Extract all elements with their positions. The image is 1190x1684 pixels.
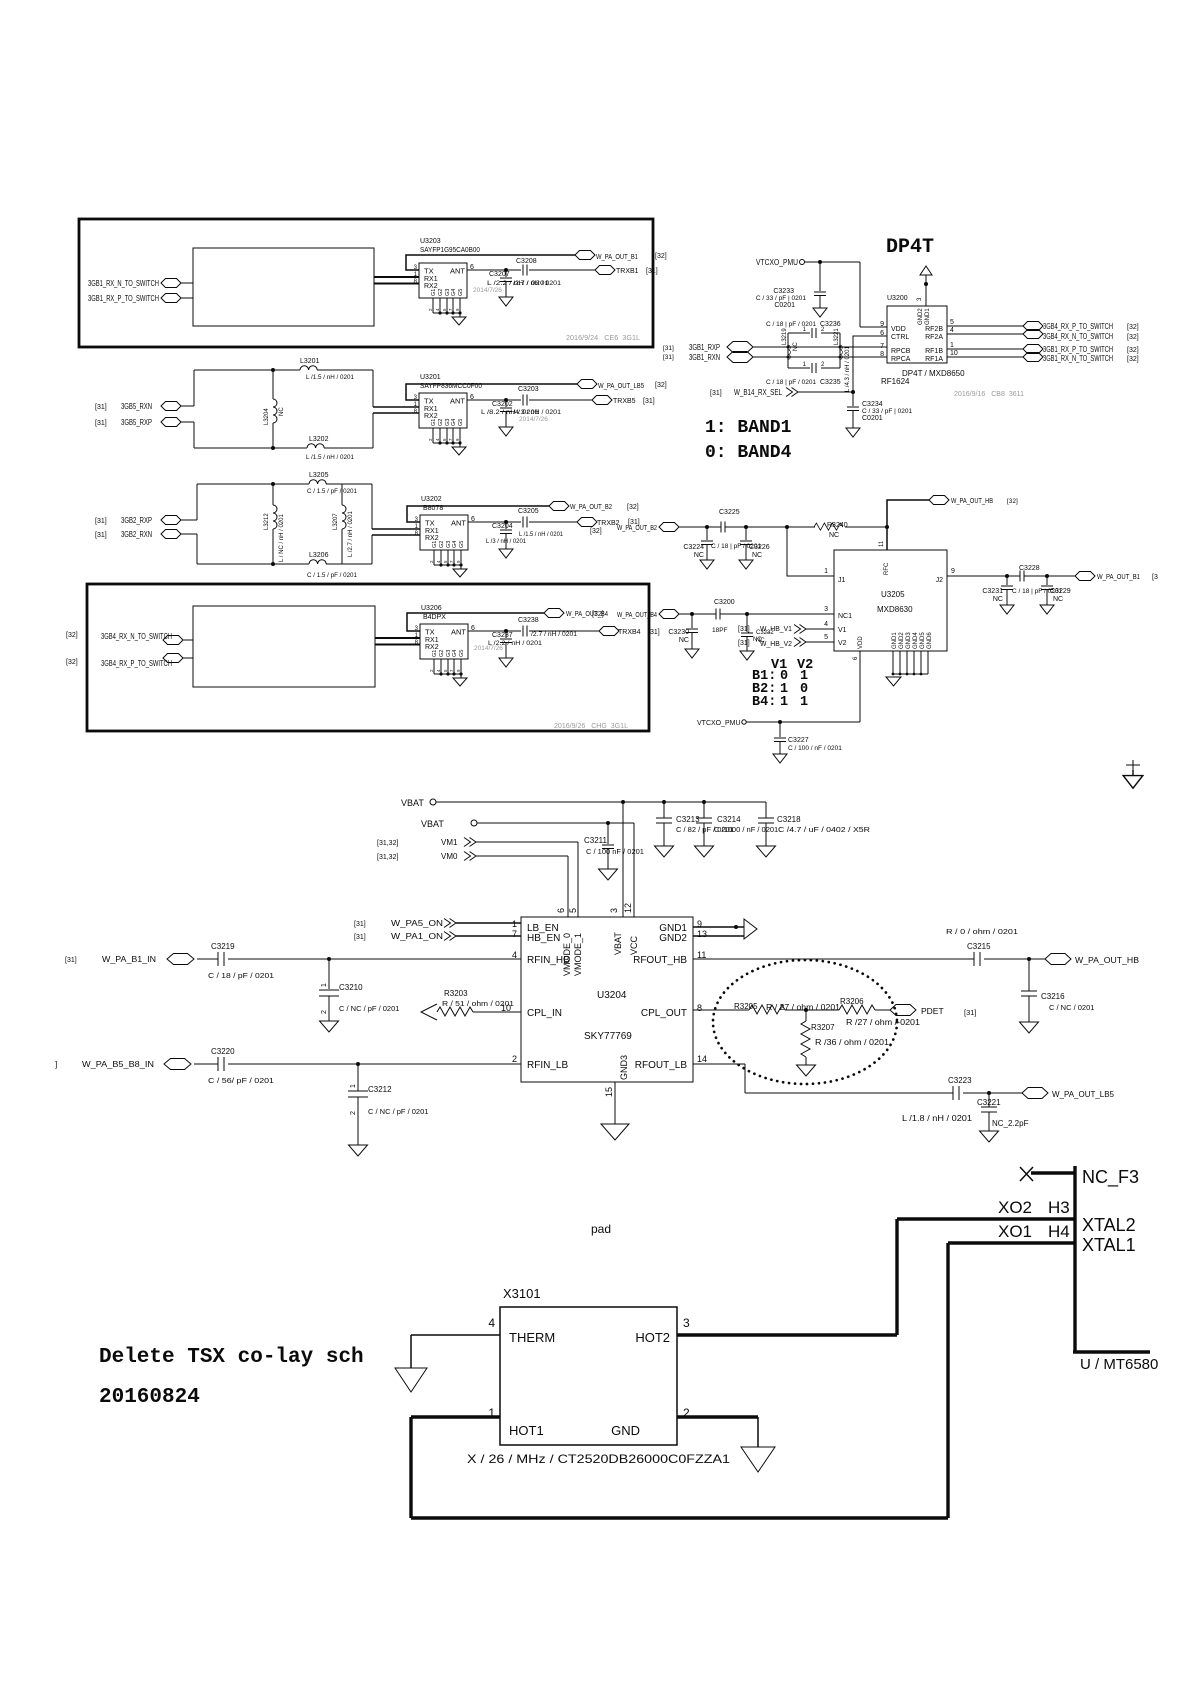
svg-text:/4.3 / nH / 0201: /4.3 / nH / 0201	[513, 409, 561, 416]
svg-text:[32]: [32]	[1007, 498, 1018, 505]
svg-text:C3216: C3216	[1041, 992, 1065, 1001]
MT6580 block edge	[1073, 1166, 1150, 1352]
svg-text:W_PA_OUT_LB5: W_PA_OUT_LB5	[1052, 1089, 1114, 1099]
capacitor C3214	[703, 802, 705, 818]
node	[1005, 574, 1009, 578]
svg-text:3GB4_RX_P_TO_SWITCH: 3GB4_RX_P_TO_SWITCH	[1043, 322, 1113, 331]
svg-text:3GB1_RXP: 3GB1_RXP	[689, 343, 720, 352]
svg-text:3: 3	[683, 1316, 690, 1330]
wire HOT2 to XTAL2	[677, 1333, 897, 1336]
node	[1027, 957, 1031, 961]
svg-text:5: 5	[824, 634, 828, 641]
svg-text:2016/9/26 CHG 3G1L: 2016/9/26 CHG 3G1L	[554, 723, 628, 730]
svg-text:6: 6	[556, 908, 566, 913]
wire	[181, 519, 197, 521]
svg-text:B4DPX: B4DPX	[423, 614, 446, 621]
svg-text:[32]: [32]	[592, 611, 604, 618]
svg-text:X / 26 / MHz / CT2520DB26000C0: X / 26 / MHz / CT2520DB26000C0FZZA1	[467, 1452, 730, 1466]
node	[504, 629, 508, 633]
wire	[194, 1063, 521, 1065]
svg-text:[32]: [32]	[655, 382, 667, 389]
svg-text:RF1B: RF1B	[925, 348, 943, 355]
svg-text:GND2: GND2	[918, 308, 924, 325]
ground	[349, 1142, 368, 1156]
svg-text:VDD: VDD	[891, 326, 906, 333]
svg-text:C3230: C3230	[668, 629, 689, 636]
svg-text:1: 1	[321, 983, 328, 987]
capacitor C3212	[357, 1064, 359, 1091]
svg-text:C0201: C0201	[774, 302, 795, 309]
svg-text:[32]: [32]	[627, 504, 639, 511]
svg-text:VDD: VDD	[858, 636, 864, 649]
svg-text:[31]: [31]	[964, 1008, 977, 1017]
svg-text:MXD8630: MXD8630	[877, 605, 913, 614]
svg-text:NC1: NC1	[838, 613, 852, 620]
svg-text:R3240: R3240	[827, 522, 848, 529]
svg-text:[32]: [32]	[66, 659, 78, 666]
node	[744, 525, 748, 529]
svg-text:H3: H3	[1048, 1198, 1070, 1217]
svg-text:11: 11	[879, 540, 885, 547]
svg-text:10: 10	[950, 350, 958, 357]
svg-text:C3207: C3207	[489, 271, 510, 278]
svg-text:2016/9/16 CB8 3611: 2016/9/16 CB8 3611	[954, 391, 1024, 398]
wire ANT to TRXB4	[468, 630, 599, 632]
svg-text:Delete TSX co-lay sch: Delete TSX co-lay sch	[99, 1346, 364, 1369]
svg-text:RFOUT_LB: RFOUT_LB	[635, 1060, 688, 1071]
wire HOT1 loop to XTAL1	[411, 1417, 948, 1518]
wire RFOUT_HB	[693, 958, 1045, 960]
svg-text:GND2: GND2	[899, 632, 905, 649]
wire VBAT rail	[436, 802, 766, 818]
svg-text:4: 4	[950, 327, 954, 334]
GND1/GND2 wires	[693, 927, 744, 936]
ground	[599, 866, 618, 880]
svg-text:SAYFP1G95CA0B00: SAYFP1G95CA0B00	[420, 247, 480, 254]
capacitor C3225	[721, 522, 725, 533]
wire loop right rail	[371, 484, 373, 564]
svg-text:L /1.5 / nH / 0201: L /1.5 / nH / 0201	[519, 531, 563, 538]
wire	[181, 421, 194, 423]
svg-text:1: BAND1: 1: BAND1	[705, 418, 792, 438]
svg-text:W_PA_OUT_B1: W_PA_OUT_B1	[1097, 574, 1140, 581]
svg-text:W_PA_OUT_LB5: W_PA_OUT_LB5	[598, 383, 644, 390]
svg-text:C / NC / pF / 0201: C / NC / pF / 0201	[339, 1004, 399, 1013]
svg-text:[31]: [31]	[663, 354, 674, 361]
capacitor C3226 NC	[745, 527, 747, 540]
svg-text:1: 1	[800, 695, 808, 710]
wire TX to W_PA_OUT_LB5	[406, 384, 577, 400]
capacitor C3230 NC	[691, 614, 693, 628]
wire loop left rail	[196, 484, 198, 564]
svg-text:18PF: 18PF	[712, 627, 728, 634]
svg-text:[32]: [32]	[66, 632, 78, 639]
svg-text:9: 9	[880, 321, 884, 328]
svg-text:[32]: [32]	[1127, 356, 1139, 363]
svg-text:[31,32]: [31,32]	[377, 854, 398, 861]
svg-text:W_PA_OUT_B2: W_PA_OUT_B2	[570, 504, 612, 511]
svg-text:VTCXO_PMU: VTCXO_PMU	[697, 720, 741, 727]
svg-text:[32]: [32]	[590, 528, 602, 535]
node	[804, 1008, 808, 1012]
svg-text:2016/9/24 CE6 3G1L: 2016/9/24 CE6 3G1L	[566, 335, 640, 342]
dotted ellipse	[713, 960, 897, 1084]
svg-text:2014/7/26: 2014/7/26	[519, 416, 548, 423]
svg-text:C3202: C3202	[492, 401, 513, 408]
svg-text:R /36 / ohm / 0201: R /36 / ohm / 0201	[815, 1038, 890, 1047]
svg-text:[32]: [32]	[1127, 347, 1139, 354]
svg-text:W_PA_B1_IN: W_PA_B1_IN	[102, 955, 156, 964]
svg-text:RFIN_LB: RFIN_LB	[527, 1060, 568, 1071]
node	[1045, 574, 1049, 578]
svg-text:C / 1.5 / pF / 0201: C / 1.5 / pF / 0201	[307, 572, 357, 579]
svg-text:C3235: C3235	[820, 379, 841, 386]
svg-text:R3207: R3207	[811, 1023, 835, 1032]
wire loop left rail	[193, 370, 195, 448]
svg-text:R / 51 / ohm / 0201: R / 51 / ohm / 0201	[442, 999, 514, 1008]
inductor L3202	[194, 447, 373, 449]
resistor R3203	[421, 1004, 437, 1020]
wire RXP to RFCB	[753, 346, 887, 348]
wire VBAT2 to VCC	[477, 823, 634, 917]
svg-text:NC: NC	[793, 342, 799, 351]
node	[690, 612, 694, 616]
svg-text:R3203: R3203	[444, 989, 468, 998]
inductor L3206	[197, 563, 372, 565]
svg-text:RF1624: RF1624	[881, 377, 910, 386]
wire B2 chain	[679, 526, 887, 528]
svg-text:HOT2: HOT2	[635, 1330, 670, 1345]
matching rails	[788, 333, 840, 368]
svg-text:1: 1	[824, 568, 828, 575]
capacitor C3237	[505, 631, 507, 638]
svg-text:8: 8	[697, 1003, 702, 1013]
svg-text:3GB1_RXN: 3GB1_RXN	[689, 353, 720, 362]
ground	[320, 1018, 339, 1032]
svg-text:GND3: GND3	[906, 632, 912, 649]
svg-text:TRXB4: TRXB4	[618, 629, 641, 636]
node	[504, 520, 508, 524]
resistor R3205	[749, 1005, 785, 1014]
wire	[197, 958, 521, 960]
port W_PA_OUT_LB5	[1022, 1088, 1048, 1099]
svg-text:/2.7 / nH / 0201: /2.7 / nH / 0201	[531, 631, 577, 638]
port 3GB4_RX_P_TO_SWITCH	[1023, 322, 1043, 331]
wire ANT to TRXB5	[467, 399, 592, 401]
svg-text:W_B14_RX_SEL: W_B14_RX_SEL	[734, 388, 782, 397]
svg-text:9: 9	[951, 568, 955, 575]
svg-text:L3219: L3219	[782, 328, 788, 345]
port W_PA_OUT_B2	[549, 502, 569, 511]
filter U3206	[415, 624, 475, 686]
svg-text:V2: V2	[838, 640, 847, 647]
svg-text:R3205: R3205	[734, 1002, 758, 1011]
svg-text:3: 3	[609, 908, 619, 913]
capacitor C3227	[779, 722, 781, 737]
svg-text:1: 1	[350, 1084, 357, 1088]
svg-text:[3: [3	[1152, 574, 1158, 581]
wire	[183, 639, 193, 641]
svg-text:U / MT6580: U / MT6580	[1080, 1356, 1158, 1373]
svg-text:VM0: VM0	[441, 852, 458, 861]
GND pin stubs	[893, 651, 928, 674]
capacitor C3213	[663, 802, 665, 818]
svg-text:C / 33 / pF | 0201: C / 33 / pF | 0201	[756, 295, 806, 302]
port TRXB2	[577, 518, 597, 527]
svg-text:X3101: X3101	[503, 1286, 541, 1301]
svg-text:C0201: C0201	[862, 415, 883, 422]
svg-text:VTCXO_PMU: VTCXO_PMU	[756, 258, 798, 267]
ground	[1000, 601, 1014, 614]
svg-text:C3210: C3210	[339, 983, 363, 992]
svg-text:3GB4_RX_N_TO_SWITCH: 3GB4_RX_N_TO_SWITCH	[101, 632, 172, 641]
svg-text:C3215: C3215	[967, 942, 991, 951]
svg-text:VM1: VM1	[441, 838, 458, 847]
svg-text:NC: NC	[1053, 596, 1063, 603]
svg-text:14: 14	[697, 1054, 707, 1064]
ic U3200	[887, 306, 947, 363]
port W_PA_OUT_B4	[544, 609, 564, 618]
svg-text:GND5: GND5	[920, 632, 926, 649]
ground	[1040, 601, 1054, 614]
svg-text:W_HB_V1: W_HB_V1	[760, 626, 792, 633]
svg-text:U3200: U3200	[887, 295, 908, 302]
capacitor C3202	[505, 400, 507, 407]
port 3GB1_RX_P_TO_SWITCH	[1023, 345, 1043, 354]
wire TX to W_PA_OUT_B2	[407, 506, 549, 522]
svg-text:W_PA_OUT_HB: W_PA_OUT_HB	[951, 498, 993, 505]
svg-text:NC: NC	[694, 552, 704, 559]
svg-text:3GB2_RXP: 3GB2_RXP	[121, 516, 152, 525]
svg-text:2: 2	[512, 1054, 517, 1064]
svg-text:pad: pad	[591, 1222, 611, 1236]
svg-text:NC: NC	[829, 532, 839, 539]
capacitor C3229 NC	[1046, 576, 1048, 585]
svg-text:C3214: C3214	[717, 815, 741, 824]
svg-text:XTAL1: XTAL1	[1082, 1235, 1136, 1255]
svg-text:[31]: [31]	[710, 390, 722, 397]
svg-text:C3205: C3205	[518, 508, 539, 515]
svg-text:C / NC / 0201: C / NC / 0201	[1049, 1003, 1094, 1012]
svg-text:2: 2	[321, 1010, 328, 1014]
svg-text:W_PA_OUT_B4: W_PA_OUT_B4	[617, 612, 657, 619]
svg-text:W_PA5_ON: W_PA5_ON	[391, 919, 443, 928]
svg-text:RPCA: RPCA	[891, 356, 911, 363]
capacitor C3236	[812, 328, 816, 338]
svg-text:C3234: C3234	[862, 401, 883, 408]
wire	[181, 282, 193, 284]
capacitor C3215	[974, 952, 980, 966]
svg-text:RF2B: RF2B	[925, 326, 943, 333]
resistor R3240 NC	[814, 523, 843, 530]
ground	[741, 1447, 775, 1472]
pin15 ground	[614, 1082, 616, 1124]
svg-text:U3206: U3206	[421, 605, 442, 612]
svg-text:CPL_OUT: CPL_OUT	[641, 1008, 687, 1019]
svg-text:L3207: L3207	[333, 513, 339, 530]
svg-text:L3212: L3212	[264, 513, 270, 530]
lone ground	[1126, 760, 1140, 772]
inductor L3201	[194, 369, 373, 371]
svg-text:2014/7/26: 2014/7/26	[473, 287, 502, 294]
svg-text:NC_F3: NC_F3	[1082, 1167, 1139, 1188]
capacitor C3218	[758, 818, 774, 823]
ground	[886, 677, 901, 686]
svg-text:1: 1	[950, 342, 954, 349]
wires RF outputs	[947, 326, 1023, 357]
ground	[773, 750, 787, 763]
filter U3203	[414, 263, 474, 325]
svg-text:GND3: GND3	[619, 1055, 629, 1080]
node	[987, 1091, 991, 1095]
svg-text:U3203: U3203	[420, 238, 441, 245]
svg-text:[32]: [32]	[655, 253, 667, 260]
wire THERM to ground	[411, 1335, 500, 1368]
svg-text:L3205: L3205	[309, 472, 329, 479]
ground	[695, 843, 714, 857]
wire to pin 3	[622, 802, 624, 917]
svg-text:W_PA_OUT_B1: W_PA_OUT_B1	[596, 254, 638, 261]
svg-text:[31]: [31]	[646, 268, 658, 275]
svg-text:CPL_IN: CPL_IN	[527, 1008, 562, 1019]
wire TX to W_PA_OUT_B1	[406, 255, 575, 270]
svg-text:R / 27 / ohm / 0201: R / 27 / ohm / 0201	[766, 1003, 841, 1012]
ground	[757, 843, 776, 857]
svg-text:C3212: C3212	[368, 1085, 392, 1094]
svg-text:HB_EN: HB_EN	[527, 933, 560, 944]
ground arrow right	[744, 919, 757, 939]
svg-text:C3227: C3227	[788, 737, 809, 744]
svg-text:[31]: [31]	[95, 518, 107, 525]
svg-text:13: 13	[697, 929, 707, 939]
wire ANT to TRXB1	[467, 269, 595, 271]
power pin 3	[925, 279, 927, 306]
svg-text:L3201: L3201	[300, 358, 320, 365]
svg-text:3GB2_RXN: 3GB2_RXN	[121, 530, 152, 539]
ground	[685, 645, 699, 658]
svg-text:C3200: C3200	[714, 599, 735, 606]
svg-text:C3218: C3218	[777, 815, 801, 824]
capacitor C3210	[328, 959, 330, 989]
node branch to J1	[785, 525, 789, 529]
wire	[183, 657, 193, 659]
svg-text:U3204: U3204	[597, 990, 627, 1001]
svg-text:W_PA_OUT_B2: W_PA_OUT_B2	[617, 525, 657, 532]
capacitor C3233	[819, 262, 821, 291]
ground	[499, 423, 513, 436]
port TRXB5	[592, 396, 612, 405]
ground	[499, 293, 513, 306]
svg-text:W_PA1_ON: W_PA1_ON	[391, 932, 443, 941]
svg-text:C3228: C3228	[1019, 565, 1040, 572]
ground	[395, 1368, 427, 1392]
svg-text:[31]: [31]	[643, 398, 655, 405]
svg-text:XTAL2: XTAL2	[1082, 1215, 1136, 1235]
svg-text:VCC: VCC	[629, 935, 639, 955]
NC_F3 no-connect X	[1020, 1167, 1033, 1181]
wire TX to W_PA_OUT_B4	[407, 613, 544, 631]
wire RX1/RX2 to module	[374, 277, 419, 284]
svg-text:L3221: L3221	[834, 328, 840, 345]
svg-text:RFOUT_HB: RFOUT_HB	[633, 955, 687, 966]
inner block (empty module)	[193, 606, 375, 687]
svg-text:L /3 / nH / 0201: L /3 / nH / 0201	[486, 538, 526, 545]
ground	[739, 556, 753, 569]
svg-text:VMODE_1: VMODE_1	[573, 933, 583, 976]
capacitor C3232 NC	[745, 612, 749, 616]
svg-text:RF1A: RF1A	[925, 356, 943, 363]
filter U3201	[414, 393, 474, 455]
svg-text:[31,32]: [31,32]	[377, 840, 398, 847]
capacitor C3231 NC	[1006, 576, 1008, 585]
node	[504, 268, 508, 272]
svg-text:C / 18 / pF / 0201: C / 18 / pF / 0201	[208, 971, 274, 980]
capacitor C3223	[953, 1086, 959, 1100]
port 3GB1_RX_N_TO_SWITCH	[1023, 353, 1043, 362]
svg-text:C3221: C3221	[977, 1098, 1001, 1107]
ground	[499, 654, 513, 667]
ground	[846, 424, 860, 437]
svg-text:[31]: [31]	[648, 629, 660, 636]
svg-text:C / 1.5 / pF / 0201: C / 1.5 / pF / 0201	[307, 488, 357, 495]
svg-text:U3201: U3201	[420, 374, 441, 381]
svg-text:[32]: [32]	[1127, 324, 1139, 331]
svg-text:[31]: [31]	[738, 626, 750, 633]
capacitor C3219	[218, 952, 224, 966]
svg-text:20160824: 20160824	[99, 1386, 200, 1409]
svg-text:L /2.7 / nH / 0201: L /2.7 / nH / 0201	[348, 511, 354, 557]
capacitor C3204	[505, 522, 507, 529]
node	[504, 398, 508, 402]
svg-text:C3237: C3237	[492, 632, 513, 639]
wires to U3201	[373, 407, 419, 413]
svg-text:[31]: [31]	[95, 420, 107, 427]
wire J2 output	[947, 575, 1075, 577]
node	[705, 525, 709, 529]
svg-text:RFC: RFC	[884, 562, 890, 575]
power up symbol	[920, 266, 932, 279]
svg-text:PDET: PDET	[921, 1006, 944, 1016]
capacitor C3238	[523, 626, 527, 637]
svg-text:W_PA_OUT_HB: W_PA_OUT_HB	[1075, 955, 1139, 965]
svg-text:GND1: GND1	[892, 632, 898, 649]
wire	[1031, 1171, 1075, 1174]
inner block (empty module)	[193, 248, 374, 326]
inductor L3207 vertical	[341, 484, 343, 564]
sheet box B4	[87, 584, 649, 731]
capacitor C3200	[716, 609, 720, 620]
inductor L3204 NC vertical	[272, 370, 274, 448]
port 3GB4_RX_N_TO_SWITCH	[1023, 330, 1043, 339]
sheet box B1	[79, 219, 653, 347]
wire	[181, 533, 197, 535]
capacitor C3216	[1028, 959, 1030, 991]
svg-text:C3231: C3231	[982, 588, 1003, 595]
svg-text:C / 56/ pF / 0201: C / 56/ pF / 0201	[208, 1076, 274, 1085]
svg-text:1: 1	[780, 695, 788, 710]
wire CTRL to W_B14_RX_SEL	[853, 336, 887, 406]
wire	[181, 405, 194, 407]
svg-text:C3211: C3211	[584, 836, 608, 845]
wire to W_PA_OUT_HB and pin 11	[887, 500, 929, 550]
port W_PA_OUT_HB	[1045, 954, 1071, 965]
svg-text:L3206: L3206	[309, 552, 329, 559]
svg-text:3GB4_RX_P_TO_SWITCH: 3GB4_RX_P_TO_SWITCH	[101, 659, 172, 668]
filter U3202	[415, 515, 475, 577]
wire loop right rail	[372, 370, 374, 448]
resistor R3207	[805, 1010, 807, 1021]
wire risers	[897, 1219, 948, 1518]
